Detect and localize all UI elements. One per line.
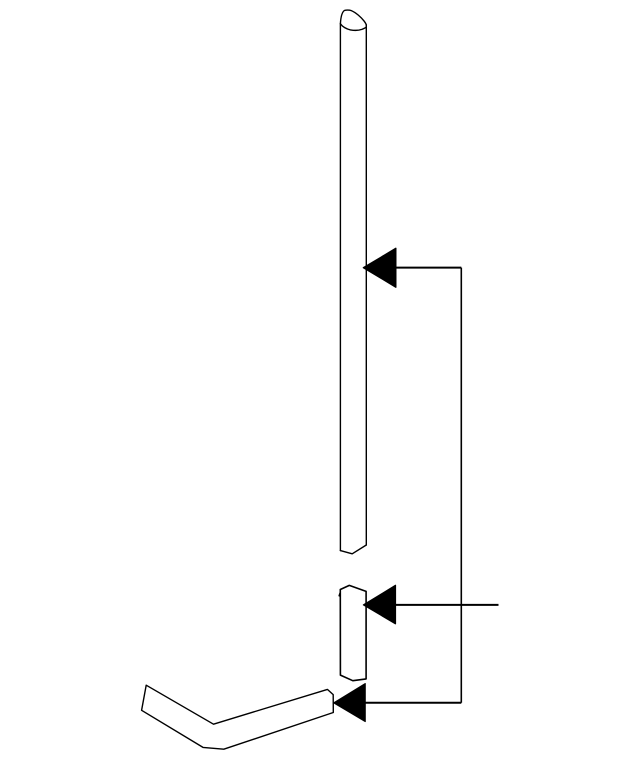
bottom angled cut: [340, 545, 366, 554]
arrow 3 leader line: [335, 702, 462, 704]
arrow 3 head: [334, 684, 365, 722]
vertical connector line: [460, 268, 462, 703]
bottom sill molding (part 3): [142, 685, 334, 749]
left edge: [339, 24, 341, 551]
small tick on left edge: [339, 593, 340, 596]
long pillar molding (part 1) body: [340, 10, 366, 554]
top cap ellipse face: [341, 24, 367, 30]
arrow 2 head: [363, 585, 395, 624]
arrow 1 leader line: [364, 267, 461, 269]
arrow 1 head: [363, 248, 396, 287]
arrow 2 leader line: [364, 604, 499, 606]
right edge: [365, 25, 367, 545]
top cap outline: [340, 10, 366, 25]
middle clip piece (part 2): [339, 585, 366, 680]
